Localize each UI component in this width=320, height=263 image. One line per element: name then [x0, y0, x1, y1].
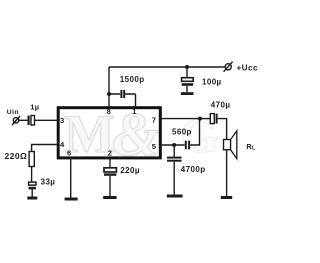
wire 470u to speaker: [218, 119, 227, 139]
capacitor 33u: [29, 182, 36, 196]
svg-text:7: 7: [152, 115, 157, 124]
wire speaker to ground: [226, 150, 228, 196]
wire pin 2: [109, 158, 111, 168]
svg-text:5: 5: [152, 142, 157, 151]
ground (4700p): [167, 195, 183, 198]
wire pin 5: [160, 144, 184, 146]
svg-text:220Ω: 220Ω: [5, 151, 28, 161]
svg-text:1500p: 1500p: [120, 75, 145, 84]
capacitor 100u: [182, 78, 194, 93]
node junction 100u: [185, 65, 189, 69]
wire 1500p branch: [109, 94, 136, 107]
svg-text:4: 4: [60, 140, 65, 149]
node junction pin5/4700p: [172, 143, 176, 147]
svg-text:2: 2: [108, 149, 113, 158]
capacitor 470u: [210, 114, 216, 124]
op-amp U1 IC body: [58, 108, 160, 158]
watermark: [64, 101, 219, 169]
svg-text:560p: 560p: [172, 128, 192, 137]
wire Vcc rail: [109, 66, 225, 68]
svg-text:220µ: 220µ: [120, 166, 140, 175]
capacitor 4700p: [167, 157, 182, 195]
capacitor 220u: [104, 168, 116, 196]
svg-text:100µ: 100µ: [202, 77, 222, 86]
wire pin 7: [160, 118, 210, 120]
speaker RL: [224, 131, 237, 159]
svg-text:470µ: 470µ: [211, 101, 231, 110]
wire to 100u: [186, 67, 188, 78]
svg-text:8: 8: [107, 107, 112, 116]
ground (pin 2): [103, 196, 116, 199]
svg-text:Uin: Uin: [7, 109, 19, 116]
ground (pin 6): [65, 198, 78, 201]
capacitor 1u: [29, 116, 35, 126]
wire pin 8 to rail: [108, 67, 110, 107]
svg-text:1µ: 1µ: [30, 102, 39, 111]
node junction 1500p: [107, 92, 111, 96]
wire input: [19, 119, 28, 121]
ground (33u): [27, 197, 37, 200]
wire cap to pin 3: [35, 119, 57, 121]
label RL: [246, 142, 256, 152]
capacitor 560p: [186, 141, 189, 150]
ground (speaker): [221, 196, 232, 199]
wire resistor to 33u: [31, 167, 33, 183]
ground (100u): [181, 92, 194, 95]
node junction pin7/560p: [198, 117, 202, 121]
terminal +Ucc: [224, 62, 233, 72]
svg-text:3: 3: [60, 116, 65, 125]
capacitor 1500p: [121, 90, 124, 98]
svg-text:33µ: 33µ: [41, 178, 56, 187]
svg-text:1: 1: [132, 107, 137, 116]
svg-text:L: L: [252, 146, 256, 152]
wire pin 6: [70, 158, 72, 198]
svg-text:4700p: 4700p: [181, 165, 206, 174]
terminal Uin input: [12, 116, 20, 125]
wire 4700p branch: [173, 145, 175, 157]
svg-text:6: 6: [67, 149, 72, 158]
svg-text:+Ucc: +Ucc: [237, 64, 258, 73]
wire pin 4: [32, 145, 57, 152]
resistor 220ohm: [29, 152, 34, 167]
wire 560p up to pin 7 line: [190, 119, 199, 145]
